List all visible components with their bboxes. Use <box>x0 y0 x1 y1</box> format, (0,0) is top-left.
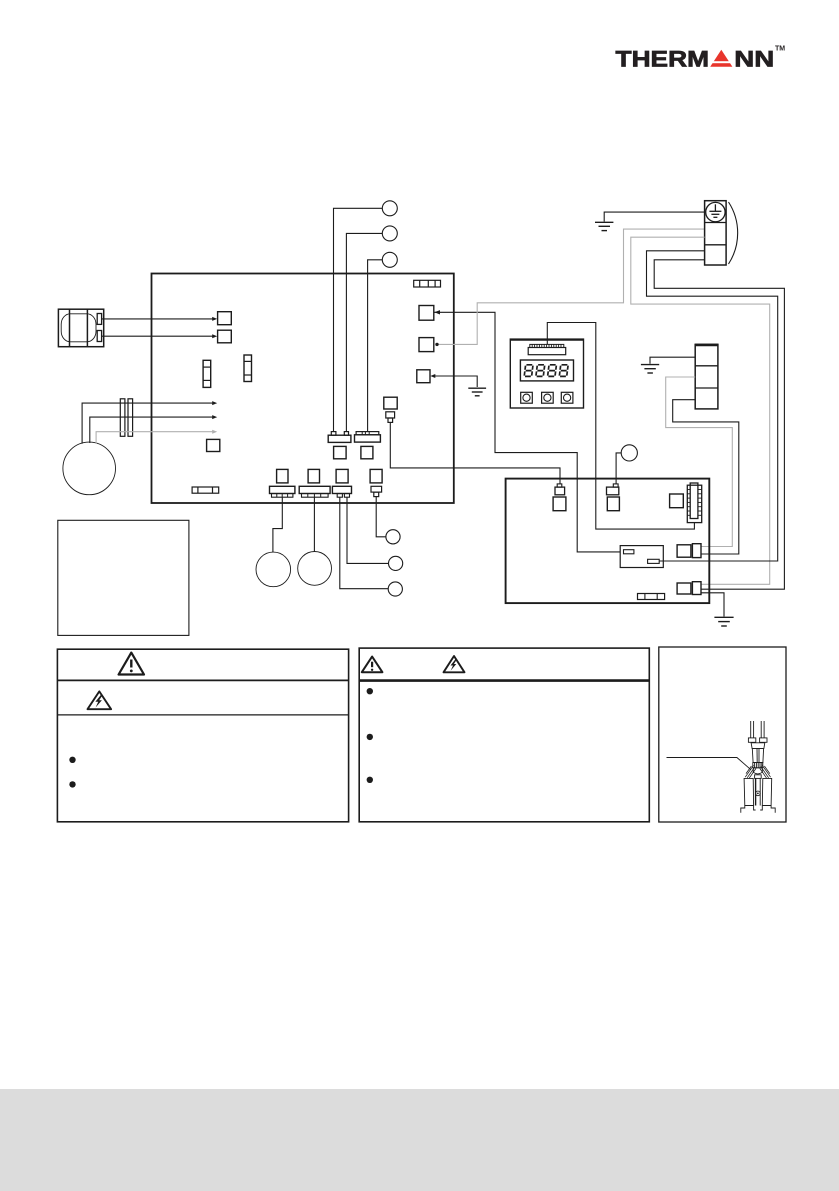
wire CN4 to element E2 <box>313 497 315 551</box>
board input square J1 <box>218 312 232 325</box>
buzzer BZ1 <box>384 397 397 422</box>
small connector CN-C <box>638 594 665 600</box>
wire S1 to relay board (live feed) <box>435 312 621 552</box>
ground G4 <box>714 617 733 626</box>
controller button 3 <box>561 392 573 403</box>
board output square S1 <box>419 306 434 321</box>
warning triangle exclamation <box>119 653 144 675</box>
sensor terminal circle C <box>382 252 397 267</box>
output pair CN-A <box>677 544 701 558</box>
element E1 circle <box>256 552 291 587</box>
connector CN3 <box>270 469 295 497</box>
main enclosure <box>152 274 454 504</box>
wire CN3 to element E1 <box>273 497 282 552</box>
IC U2 <box>670 494 684 508</box>
collar <box>755 775 762 779</box>
wire S2 to power plug (gray) <box>437 229 704 344</box>
pump wire 2 <box>90 415 217 443</box>
board square J3 <box>207 439 220 451</box>
sensor terminal circle B <box>382 226 397 241</box>
footer gray band <box>0 1089 839 1191</box>
wire buzzer to relay board plug P1 <box>390 422 560 484</box>
tank wall hatch right <box>760 765 771 778</box>
connector CN2 <box>355 432 381 459</box>
wire T1 to plug P2 <box>616 453 621 484</box>
controller display window <box>520 360 573 381</box>
plug earth pin circle <box>706 202 725 221</box>
sensor circle S1 <box>386 530 400 544</box>
terminal block TB1 <box>695 344 719 409</box>
plug P1 <box>553 484 566 511</box>
bullet 4 <box>367 734 373 740</box>
warning triangle lightning <box>88 691 112 709</box>
wire circle A to connector CN1 <box>334 208 383 431</box>
pump wire 1 <box>82 401 217 444</box>
connector CN4 <box>299 469 330 497</box>
sensor circle S2 <box>389 556 403 570</box>
fuse F2 <box>244 355 252 382</box>
plug P2 <box>607 484 620 511</box>
svg-text:TM: TM <box>775 46 785 53</box>
lead wires <box>750 721 752 738</box>
thermistor circle T1 <box>621 445 637 461</box>
base flange <box>741 806 745 813</box>
wire plug live 2 to relay board CN-B <box>654 260 784 589</box>
connector CN6 <box>370 469 382 496</box>
controller button 1 <box>521 392 533 403</box>
bullet 1 <box>69 757 75 763</box>
bullet 3 <box>367 688 373 694</box>
wire CN-B to ground G4 <box>701 593 724 617</box>
warning box 2 <box>359 648 649 822</box>
crimp lugs <box>748 738 755 742</box>
board connector CN-L (bottom left) <box>192 487 219 493</box>
arrowhead into S1 <box>434 310 440 314</box>
hex nut hatched <box>753 763 763 768</box>
board output square S2 <box>419 338 434 352</box>
ground G1 <box>468 388 486 396</box>
tank wall hatch left <box>745 765 756 778</box>
fuse F1 <box>203 360 211 387</box>
pointer line <box>667 758 752 770</box>
transformer T1 <box>58 309 103 347</box>
board connector CN-T (top right on enclosure) <box>414 280 441 287</box>
warning triangle lightning 2 <box>444 656 465 672</box>
wire plug live 1 to relay <box>647 251 778 561</box>
ground G3 <box>641 365 659 373</box>
board square S3 <box>417 370 430 383</box>
ground G2 <box>595 222 613 230</box>
wire TB1 middle cell gray to relay board CN-A <box>666 377 733 547</box>
pump wire 3 gray <box>96 430 217 444</box>
plug cord arc <box>729 202 738 264</box>
legend box <box>58 520 189 635</box>
controller button 2 <box>542 392 554 403</box>
wire TB1 bottom cell to relay board CN-A <box>673 400 739 554</box>
anode body top <box>751 743 765 749</box>
connector CN5 <box>332 469 351 497</box>
wire circle B to connector CN1 <box>346 233 382 431</box>
output pair CN-B <box>677 582 701 595</box>
controller U1 <box>510 339 583 408</box>
mains plug P0 <box>705 201 738 265</box>
element E2 circle <box>298 552 332 586</box>
wire transformer pin1 to board <box>102 317 218 321</box>
pump motor M1 <box>63 442 116 495</box>
right block <box>762 778 771 805</box>
wire transformer pin2 to board <box>102 334 218 338</box>
bullet 5 <box>367 777 373 783</box>
left block <box>744 778 754 805</box>
connector CN1 <box>328 432 351 459</box>
center channel <box>755 778 757 805</box>
wire ground to S3 <box>430 374 477 387</box>
wire plug neutral gray to relay board CN-B <box>631 237 770 584</box>
DIP connector U3 <box>687 483 701 523</box>
sensor terminal circle A <box>382 201 397 216</box>
svg-text:THERM: THERM <box>616 46 710 71</box>
wire plug earth to ground G2 <box>604 212 704 221</box>
wire CN6 to sensor circle S1 <box>376 497 386 537</box>
THERMANN logo <box>616 46 786 72</box>
node dot S2 <box>435 343 438 346</box>
7-segment digits 8888 <box>524 365 533 377</box>
wire circle C to connector CN2 <box>368 260 383 432</box>
wire CN5 left pin to sensor circle S3 <box>340 497 388 589</box>
screw <box>756 791 761 796</box>
warning triangle exclamation 2 <box>362 657 383 673</box>
board input square J2 <box>218 330 232 343</box>
relay board enclosure <box>506 479 710 603</box>
sensor circle S3 <box>388 582 402 596</box>
anode illustration <box>741 721 775 813</box>
warning box 1 <box>57 649 348 822</box>
svg-text:NN: NN <box>734 46 774 71</box>
illustration box 3 <box>659 647 786 822</box>
anode shaft <box>752 748 763 762</box>
wire controller to relay board DIP connector <box>547 323 694 530</box>
wire CN5 right pin to sensor circle S2 <box>347 497 389 563</box>
cable grommet <box>120 399 132 437</box>
dome seat <box>753 768 762 774</box>
bullet 2 <box>69 781 75 787</box>
wire TB1 top cell to ground G3 <box>650 357 695 364</box>
controller ribbon connector <box>530 344 564 347</box>
relay RY1 <box>620 546 663 568</box>
